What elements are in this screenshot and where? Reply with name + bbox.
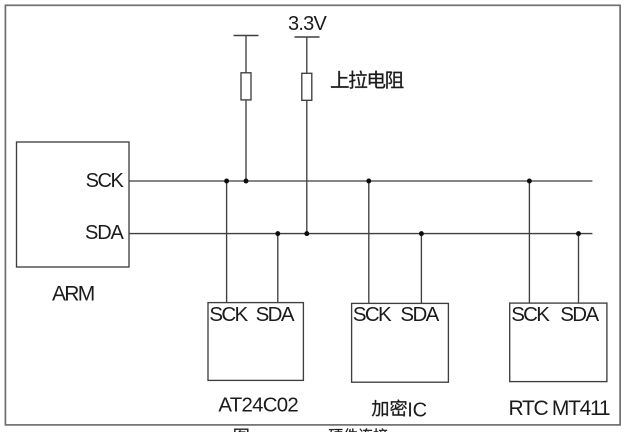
label pull-up resistor (Chinese) [331, 71, 403, 89]
label RTC MT411 [509, 397, 610, 420]
svg-text:RTC MT411: RTC MT411 [509, 397, 610, 420]
svg-text:SCK: SCK [209, 303, 248, 326]
label ARM [52, 283, 94, 306]
wire power bar to R1 top [245, 36, 247, 73]
svg-text:SCK: SCK [511, 303, 550, 326]
IC U2 encryption IC [352, 303, 449, 382]
svg-text:SDA: SDA [400, 303, 439, 326]
wire AT24C02 SCK pin to SCK bus [226, 181, 228, 303]
ARM pin label SCK [86, 170, 125, 192]
RTC pin label SCK [511, 303, 550, 326]
wire encryption IC SCK pin to SCK bus (crosses SDA bus) [368, 181, 370, 303]
wire R1 bottom to SCK bus [245, 100, 247, 181]
junction R1 / SCK bus [244, 179, 249, 184]
resistor R2 (SDA pull-up) [302, 73, 312, 100]
junction encryption IC SCK / SCK bus [366, 179, 371, 184]
wire R2 bottom to SDA bus (crosses SCK bus, no join) [306, 100, 308, 233]
junction encryption IC SDA / SDA bus [419, 231, 424, 236]
AT24C02 pin label SCK [209, 303, 248, 326]
svg-text:SDA: SDA [85, 222, 125, 244]
svg-text:IC: IC [407, 400, 427, 422]
IC U1 AT24C02 (EEPROM) [208, 303, 303, 381]
AT24C02 pin label SDA [256, 303, 295, 326]
ARM pin label SDA [85, 222, 125, 244]
power rail bar 3.3V (right pull-up) [295, 36, 320, 38]
caption: figure number + hardware connection (clipped) [234, 428, 387, 432]
label 3.3V [288, 13, 328, 35]
wire SDA bus (horizontal) [129, 233, 592, 235]
junction RTC SCK / SCK bus [527, 179, 532, 184]
svg-text:SDA: SDA [256, 303, 295, 326]
wire SCK bus (horizontal) [129, 180, 592, 182]
svg-text:SCK: SCK [86, 170, 125, 192]
junction AT24C02 SCK / SCK bus [224, 179, 229, 184]
svg-text:AT24C02: AT24C02 [218, 395, 298, 417]
wire encryption IC SDA pin to SDA bus [420, 234, 422, 304]
wire RTC SCK pin to SCK bus (crosses SDA bus) [528, 181, 530, 303]
resistor R1 (SCK pull-up) [241, 73, 251, 100]
svg-text:SCK: SCK [353, 303, 392, 326]
label JiaMi IC (encryption IC, Chinese) [372, 400, 427, 422]
junction RTC SDA / SDA bus [576, 231, 581, 236]
encryption IC pin label SCK [353, 303, 392, 326]
svg-text:3.3V: 3.3V [288, 13, 328, 35]
wire AT24C02 SDA pin to SDA bus [277, 234, 279, 303]
power rail bar (left pull-up to 3.3V) [234, 35, 259, 37]
wire power bar to R2 top [306, 37, 308, 73]
junction R2 / SDA bus [304, 231, 309, 236]
svg-text:ARM: ARM [52, 283, 94, 306]
encryption IC pin label SDA [400, 303, 439, 326]
IC ARM (microcontroller block) [17, 142, 130, 267]
IC U3 RTC MT411 [510, 303, 607, 382]
junction AT24C02 SDA / SDA bus [275, 231, 280, 236]
label AT24C02 [218, 395, 298, 417]
wire RTC SDA pin to SDA bus [578, 234, 580, 304]
RTC pin label SDA [560, 303, 599, 326]
svg-text:SDA: SDA [560, 303, 599, 326]
